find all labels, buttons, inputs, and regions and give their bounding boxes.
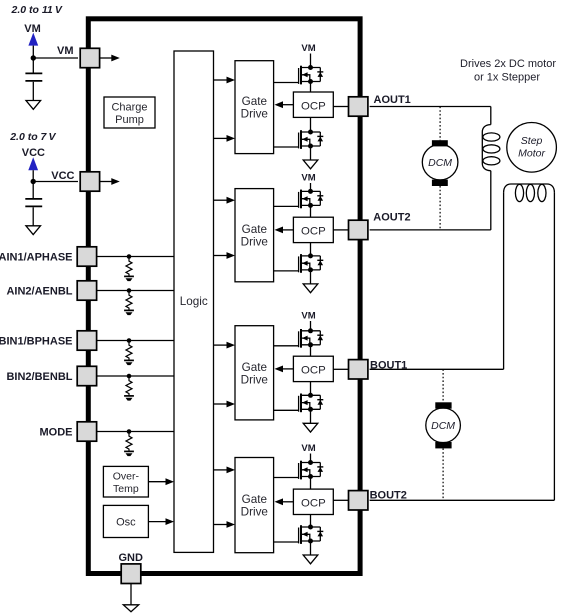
- wire OCP to low fet 3: [310, 382, 312, 396]
- transistor high-side fet 2: [299, 189, 324, 208]
- svg-text:Step: Step: [521, 135, 543, 147]
- ground (bridge 1): [303, 160, 318, 169]
- wire VM to high-side fet 3: [310, 321, 312, 331]
- svg-text:Motor: Motor: [518, 148, 545, 160]
- VM supply arrow: [28, 33, 38, 46]
- wire OCP to gate drive 3 (arrow): [282, 368, 293, 370]
- wire VM to high-side fet 1: [310, 54, 312, 68]
- svg-text:Gate: Gate: [242, 361, 267, 374]
- transistor low-side fet 4: [299, 525, 324, 544]
- wire VM internal arrow: [100, 57, 112, 59]
- wire high fet source to OCP 1: [310, 82, 312, 93]
- wire OCP to pin BOUT1: [333, 368, 348, 370]
- svg-text:VM: VM: [301, 311, 315, 322]
- pin VCC: [80, 172, 99, 191]
- pin AIN2/AENBL: [77, 281, 96, 300]
- inductor stepper A winding: [490, 107, 492, 125]
- pin BIN1/BPHASE: [77, 331, 96, 350]
- wire OCP to pin AOUT2: [333, 229, 348, 231]
- wire OCP to gate drive 1 (arrow): [282, 104, 293, 106]
- VCC supply arrow: [28, 157, 38, 170]
- svg-text:2.0 to 7 V: 2.0 to 7 V: [9, 131, 56, 143]
- pin BOUT2: [349, 491, 368, 510]
- wire gate drive to low fet gate 2: [274, 270, 299, 272]
- svg-text:Over-: Over-: [113, 471, 140, 483]
- wire VM node to pin: [33, 57, 78, 59]
- gate drive block 3: [235, 326, 274, 420]
- pin AOUT1: [349, 97, 368, 116]
- wire logic to gate drive 1 (lower): [214, 137, 228, 139]
- svg-text:GND: GND: [118, 552, 143, 564]
- svg-text:AIN1/APHASE: AIN1/APHASE: [0, 252, 73, 264]
- pin BIN2/BENBL: [77, 366, 96, 385]
- wire high fet source to OCP 3: [310, 345, 312, 356]
- over-temp block: [103, 466, 148, 497]
- pin AIN1/APHASE: [77, 247, 96, 266]
- svg-text:VM: VM: [57, 45, 74, 57]
- transistor high-side fet 3: [299, 328, 324, 347]
- ground (VM cap): [26, 101, 41, 110]
- svg-text:OCP: OCP: [301, 100, 326, 112]
- wire logic to gate drive 1 (upper): [214, 79, 228, 81]
- wire AOUT2 to stepper A winding: [370, 229, 491, 231]
- svg-text:DCM: DCM: [431, 420, 455, 432]
- motor DCM 1: [439, 107, 441, 141]
- resistor (pulldown on MODE): [124, 429, 134, 456]
- svg-text:Pump: Pump: [115, 114, 144, 126]
- svg-text:Drives 2x DC motor: Drives 2x DC motor: [460, 58, 556, 70]
- svg-text:2.0 to 11 V: 2.0 to 11 V: [11, 4, 63, 16]
- wire OCP to low fet 4: [310, 515, 312, 528]
- wire OCP to pin BOUT2: [333, 499, 348, 501]
- logic block: [174, 51, 214, 552]
- svg-text:OCP: OCP: [301, 226, 326, 238]
- ground (GND pin): [123, 605, 138, 612]
- svg-text:VM: VM: [301, 443, 315, 454]
- svg-text:VM: VM: [24, 23, 41, 35]
- wire GND to ground: [130, 584, 132, 605]
- wire logic to gate drive 4 (upper): [214, 469, 228, 471]
- transistor high-side fet 1: [299, 65, 324, 84]
- svg-text:VCC: VCC: [51, 170, 74, 182]
- ground (bridge 2): [303, 284, 318, 293]
- gate drive block 4: [235, 458, 274, 553]
- svg-text:or 1x Stepper: or 1x Stepper: [474, 72, 540, 84]
- resistor (pulldown on AIN2/AENBL): [124, 288, 134, 315]
- wire OCP to low fet 2: [310, 243, 312, 256]
- wire AOUT1 to stepper A winding: [370, 106, 491, 108]
- wire logic to gate drive 3 (upper): [214, 344, 228, 346]
- resistor (pulldown on BIN1/BPHASE): [124, 338, 134, 365]
- pin GND: [121, 564, 141, 584]
- OCP block 4: [293, 489, 333, 514]
- svg-text:BIN2/BENBL: BIN2/BENBL: [6, 371, 72, 383]
- resistor (pulldown on BIN2/BENBL): [124, 374, 134, 401]
- svg-text:BOUT2: BOUT2: [370, 489, 407, 501]
- wire gate drive to high fet gate 4: [274, 477, 299, 479]
- wire VCC internal arrow: [100, 181, 112, 183]
- transistor low-side fet 1: [299, 130, 324, 149]
- wire AIN1/APHASE to logic: [97, 256, 174, 258]
- svg-text:Drive: Drive: [241, 236, 268, 249]
- wire gate drive to high fet gate 2: [274, 205, 299, 207]
- wire AIN2/AENBL to logic: [97, 290, 174, 292]
- transistor low-side fet 3: [299, 393, 324, 412]
- resistor (pulldown on AIN1/APHASE): [124, 254, 134, 281]
- wire high fet source to OCP 4: [310, 477, 312, 490]
- svg-text:Drive: Drive: [241, 506, 268, 519]
- pin BOUT1: [349, 360, 368, 379]
- svg-text:Gate: Gate: [242, 493, 267, 506]
- chip boundary: [88, 19, 360, 574]
- svg-text:MODE: MODE: [40, 427, 73, 439]
- wire OCP to pin AOUT1: [333, 106, 348, 108]
- wire VM to high-side fet 2: [310, 183, 312, 191]
- svg-text:Logic: Logic: [180, 295, 208, 308]
- svg-text:AIN2/AENBL: AIN2/AENBL: [6, 286, 72, 298]
- wire BIN1/BPHASE to logic: [97, 340, 174, 342]
- svg-text:VM: VM: [301, 173, 315, 184]
- wire low fet source to ground 1: [310, 146, 312, 160]
- ground (bridge 3): [303, 423, 318, 432]
- pin AOUT2: [349, 220, 368, 239]
- motor Step Motor: [507, 123, 557, 173]
- wire logic to gate drive 2 (upper): [214, 199, 228, 201]
- svg-text:Gate: Gate: [242, 95, 267, 108]
- OCP block 2: [293, 217, 333, 242]
- wire gate drive to low fet gate 4: [274, 541, 299, 543]
- OCP block 3: [293, 356, 333, 381]
- oscillator block: [103, 505, 148, 537]
- svg-text:Drive: Drive: [241, 373, 268, 386]
- node VCC junction: [31, 179, 36, 184]
- svg-text:Gate: Gate: [242, 223, 267, 236]
- svg-text:DCM: DCM: [428, 157, 452, 169]
- svg-text:VCC: VCC: [22, 147, 45, 159]
- svg-text:Temp: Temp: [113, 483, 139, 495]
- svg-text:BIN1/BPHASE: BIN1/BPHASE: [0, 336, 73, 348]
- wire VM to high-side fet 4: [310, 454, 312, 463]
- svg-text:AOUT2: AOUT2: [373, 212, 410, 224]
- wire gate drive to low fet gate 3: [274, 409, 299, 411]
- motor DCM 2: [442, 369, 444, 402]
- gate drive block 2: [235, 189, 274, 282]
- svg-text:AOUT1: AOUT1: [374, 94, 411, 106]
- wire over-temp to logic: [148, 481, 166, 483]
- wire low fet source to ground 3: [310, 409, 312, 423]
- wire osc to logic: [148, 521, 166, 523]
- wire low fet source to ground 4: [310, 541, 312, 555]
- wire MODE to logic: [97, 431, 174, 433]
- capacitor (VCC bypass): [32, 182, 34, 199]
- svg-text:OCP: OCP: [301, 497, 326, 509]
- svg-text:OCP: OCP: [301, 365, 326, 377]
- wire logic to gate drive 4 (lower): [214, 524, 228, 526]
- ground (bridge 4): [303, 555, 318, 564]
- pin VM: [80, 48, 99, 67]
- svg-text:VM: VM: [301, 43, 315, 54]
- wire BOUT1 to stepper B winding: [370, 368, 504, 370]
- node VM junction: [31, 55, 36, 60]
- capacitor (VM bypass): [32, 58, 34, 73]
- wire gate drive to high fet gate 1: [274, 82, 299, 84]
- transistor low-side fet 2: [299, 253, 324, 272]
- wire OCP to low fet 1: [310, 117, 312, 132]
- inductor stepper B winding: [503, 192, 505, 369]
- svg-text:Drive: Drive: [241, 108, 268, 121]
- wire OCP to gate drive 4 (arrow): [282, 501, 293, 503]
- svg-text:Osc: Osc: [116, 517, 136, 529]
- pin MODE: [77, 422, 96, 441]
- wire low fet source to ground 2: [310, 270, 312, 284]
- wire high fet source to OCP 2: [310, 205, 312, 217]
- wire logic to gate drive 2 (lower): [214, 255, 228, 257]
- ground (VCC cap): [26, 226, 41, 235]
- wire gate drive to low fet gate 1: [274, 146, 299, 148]
- wire logic to gate drive 3 (lower): [214, 403, 228, 405]
- transistor high-side fet 4: [299, 460, 324, 479]
- charge pump block: [104, 97, 155, 128]
- OCP block 1: [293, 92, 333, 117]
- wire BOUT2 to stepper B winding: [370, 499, 555, 501]
- wire gate drive to high fet gate 3: [274, 345, 299, 347]
- wire OCP to gate drive 2 (arrow): [282, 229, 293, 231]
- wire VCC node to pin: [33, 181, 78, 183]
- svg-text:Charge: Charge: [111, 102, 147, 114]
- wire BIN2/BENBL to logic: [97, 375, 174, 377]
- gate drive block 1: [235, 61, 274, 154]
